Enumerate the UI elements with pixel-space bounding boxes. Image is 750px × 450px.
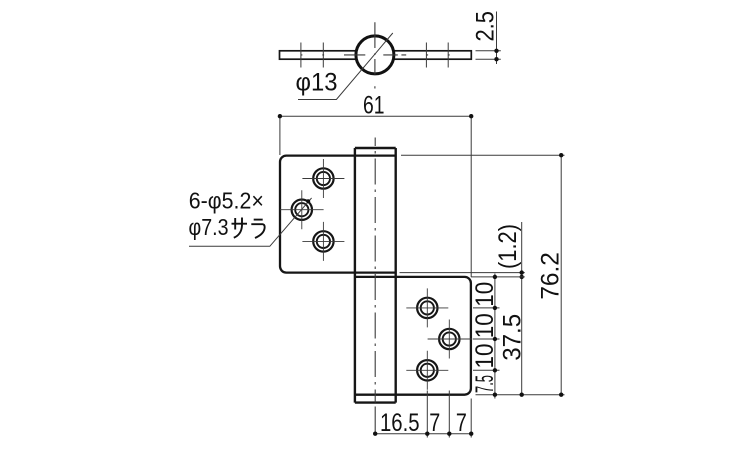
svg-text:10: 10	[471, 313, 499, 338]
svg-text:61: 61	[363, 91, 385, 119]
katakana ラ	[251, 220, 264, 238]
leader line for hole callout	[189, 198, 312, 246]
chain dimension line	[494, 274, 496, 399]
svg-text:7: 7	[456, 409, 467, 437]
hole R3	[406, 351, 448, 390]
svg-text:7: 7	[429, 409, 440, 437]
right leaf outline	[355, 277, 471, 395]
76.2 extension lines	[401, 155, 565, 395]
barrel bottom cap	[355, 401, 396, 403]
horizontal centerline of top view (dash-dot segments)	[301, 54, 450, 56]
svg-text:10: 10	[471, 344, 499, 369]
barrel top cap	[355, 147, 396, 149]
dimension 2.5 extension lines	[476, 51, 501, 59]
61 dimension line	[280, 115, 471, 117]
vertical centerline through circle (dash-dot segments)	[374, 22, 376, 88]
svg-text:76.2: 76.2	[536, 252, 564, 300]
svg-text:7.5: 7.5	[471, 375, 499, 393]
barrel centerline (dash-dot)	[374, 138, 376, 403]
knuckle barrel end view circle φ13	[356, 36, 394, 74]
leader line for φ13	[298, 33, 393, 100]
hole L1	[302, 159, 344, 198]
left leaf outline	[280, 156, 396, 273]
dimension 2.5 line	[496, 12, 498, 65]
knuckle barrel vertical lines	[355, 148, 396, 403]
37.5/(1.2) shared dimension line	[521, 222, 523, 395]
svg-text:2.5: 2.5	[472, 11, 500, 42]
hole L3	[302, 222, 344, 261]
hinge leaf edge view (thin bar)	[280, 51, 472, 59]
bottom extension lines	[427, 391, 471, 438]
svg-text:37.5: 37.5	[498, 314, 526, 361]
barrel centerline lower segment to dimension line	[374, 407, 376, 434]
chain top extension line	[471, 276, 525, 278]
svg-text:6-φ5.2×: 6-φ5.2×	[189, 188, 264, 214]
hole L2	[280, 190, 324, 229]
hole R1	[406, 288, 448, 327]
svg-text:φ7.3: φ7.3	[189, 214, 229, 240]
chain row extension lines	[473, 308, 500, 370]
svg-text:16.5: 16.5	[380, 409, 420, 437]
bottom dimension line	[375, 433, 471, 435]
katakana サ	[232, 218, 248, 238]
hole R2	[428, 320, 473, 359]
hole position tick marks in top view	[301, 43, 448, 68]
61 extension lines	[280, 114, 471, 277]
(1.2) extension line	[400, 272, 525, 274]
76.2 dimension line	[560, 155, 562, 395]
svg-text:10: 10	[471, 282, 499, 307]
svg-text:φ13: φ13	[296, 69, 338, 97]
svg-text:(1.2): (1.2)	[494, 224, 522, 269]
